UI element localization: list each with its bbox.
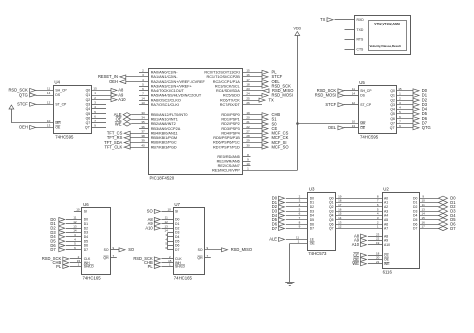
svg-text:RA3/AN3/C1IN+/VREF+: RA3/AN3/C1IN+/VREF+ bbox=[151, 84, 193, 88]
svg-text:SO: SO bbox=[104, 248, 109, 252]
svg-text:D1: D1 bbox=[175, 222, 179, 226]
svg-text:RC4/SDI/SDA: RC4/SDI/SDA bbox=[216, 89, 240, 93]
svg-text:QTG: QTG bbox=[19, 92, 28, 97]
svg-text:D5: D5 bbox=[413, 218, 417, 222]
svg-text:PIC18F4520: PIC18F4520 bbox=[150, 175, 175, 180]
svg-text:STCF: STCF bbox=[17, 102, 28, 107]
svg-text:TFT_CLK: TFT_CLK bbox=[105, 144, 123, 149]
svg-text:SH_CP: SH_CP bbox=[55, 89, 67, 93]
svg-text:Q2: Q2 bbox=[86, 98, 91, 102]
svg-text:SI: SI bbox=[84, 210, 87, 214]
svg-text:RD7/PSP7/P1D: RD7/PSP7/P1D bbox=[213, 145, 240, 149]
svg-text:U2: U2 bbox=[383, 187, 389, 192]
svg-text:74HC165: 74HC165 bbox=[83, 275, 102, 280]
svg-text:D5: D5 bbox=[310, 218, 314, 222]
svg-text:D1: D1 bbox=[84, 222, 88, 226]
svg-text:RD2/PSP2: RD2/PSP2 bbox=[221, 122, 239, 126]
svg-text:14: 14 bbox=[141, 96, 145, 100]
svg-text:D1: D1 bbox=[413, 201, 417, 205]
svg-text:DS: DS bbox=[55, 93, 60, 97]
svg-text:RC5/SDO: RC5/SDO bbox=[223, 94, 240, 98]
svg-text:RD1/PSP1: RD1/PSP1 bbox=[221, 118, 239, 122]
svg-text:D5: D5 bbox=[175, 239, 179, 243]
svg-text:10: 10 bbox=[76, 208, 80, 212]
svg-text:RC0/T1OSO/T13CKI: RC0/T1OSO/T13CKI bbox=[204, 71, 239, 75]
svg-text:RA1/AN1/C2IN-: RA1/AN1/C2IN- bbox=[151, 75, 179, 79]
svg-text:12: 12 bbox=[47, 101, 51, 105]
svg-text:RB2/AN8/INT2: RB2/AN8/INT2 bbox=[151, 122, 176, 126]
svg-text:D7: D7 bbox=[413, 227, 417, 231]
svg-text:Q1: Q1 bbox=[390, 94, 395, 98]
svg-text:27: 27 bbox=[246, 129, 250, 133]
svg-text:40: 40 bbox=[141, 143, 145, 147]
svg-text:Q5: Q5 bbox=[329, 218, 334, 222]
svg-text:RA2/AN2/C2IN+/VREF-/CVREF: RA2/AN2/C2IN+/VREF-/CVREF bbox=[151, 80, 206, 84]
svg-text:VDD: VDD bbox=[294, 27, 302, 31]
svg-text:SH/LD: SH/LD bbox=[84, 265, 95, 269]
svg-text:VT52,VT102,ANSI: VT52,VT102,ANSI bbox=[374, 22, 400, 26]
svg-text:RTS: RTS bbox=[357, 38, 364, 42]
svg-text:U4: U4 bbox=[54, 79, 60, 84]
svg-text:30: 30 bbox=[246, 143, 250, 147]
svg-text:SO: SO bbox=[147, 209, 153, 214]
svg-text:Q0: Q0 bbox=[86, 89, 91, 93]
svg-text:RSD_MISO: RSD_MISO bbox=[231, 247, 252, 252]
svg-text:25: 25 bbox=[246, 96, 250, 100]
svg-text:Q3: Q3 bbox=[390, 103, 395, 107]
svg-text:WE: WE bbox=[115, 121, 122, 126]
svg-text:D7: D7 bbox=[175, 248, 179, 252]
svg-text:RA7/OSC1/CLKI: RA7/OSC1/CLKI bbox=[151, 103, 179, 107]
svg-text:RB5/KBI1/PGM: RB5/KBI1/PGM bbox=[151, 136, 177, 140]
svg-text:RB3/AN9/CCP2A: RB3/AN9/CCP2A bbox=[151, 127, 181, 131]
svg-text:OEH: OEH bbox=[19, 125, 28, 130]
svg-text:15: 15 bbox=[246, 69, 250, 73]
svg-text:RC2/CCP1/P1A: RC2/CCP1/P1A bbox=[213, 80, 240, 84]
svg-text:DS: DS bbox=[360, 94, 365, 98]
svg-text:RC3/SCK/SCL: RC3/SCK/SCL bbox=[215, 84, 240, 88]
svg-text:RB4/KBI0/AN11: RB4/KBI0/AN11 bbox=[151, 131, 178, 135]
svg-text:D7: D7 bbox=[310, 227, 314, 231]
svg-text:A5: A5 bbox=[384, 218, 388, 222]
svg-text:RE3/MCLR/VPP: RE3/MCLR/VPP bbox=[212, 169, 240, 173]
svg-text:U5: U5 bbox=[359, 80, 365, 85]
svg-text:18: 18 bbox=[246, 82, 250, 86]
svg-text:Q1: Q1 bbox=[86, 93, 91, 97]
svg-text:RD0/PSP0: RD0/PSP0 bbox=[221, 113, 239, 117]
svg-text:Q7': Q7' bbox=[85, 126, 91, 130]
svg-text:U6: U6 bbox=[83, 202, 89, 207]
svg-text:OEH: OEH bbox=[109, 79, 118, 84]
svg-text:D5: D5 bbox=[84, 239, 88, 243]
svg-text:10: 10 bbox=[352, 119, 356, 123]
svg-text:Q6: Q6 bbox=[86, 116, 91, 120]
svg-text:OEL: OEL bbox=[328, 125, 337, 130]
svg-text:STCF: STCF bbox=[325, 102, 336, 107]
svg-text:Q5: Q5 bbox=[86, 112, 91, 116]
svg-text:SO: SO bbox=[198, 248, 203, 252]
svg-text:PL: PL bbox=[148, 264, 154, 269]
svg-text:RD3/PSP3: RD3/PSP3 bbox=[221, 127, 239, 131]
svg-text:A1: A1 bbox=[384, 201, 388, 205]
svg-text:TX: TX bbox=[269, 97, 275, 102]
svg-text:MR: MR bbox=[55, 121, 61, 125]
svg-text:Q3: Q3 bbox=[86, 103, 91, 107]
svg-text:QTG: QTG bbox=[422, 125, 431, 130]
svg-text:74HC595: 74HC595 bbox=[55, 134, 74, 139]
svg-text:D7: D7 bbox=[50, 247, 56, 252]
svg-text:TX: TX bbox=[320, 17, 326, 22]
svg-text:QH: QH bbox=[103, 256, 109, 260]
svg-text:SI: SI bbox=[175, 210, 178, 214]
svg-text:74HC165: 74HC165 bbox=[174, 275, 193, 280]
svg-text:ST_CP: ST_CP bbox=[55, 103, 67, 107]
svg-text:RSD_MOSI: RSD_MOSI bbox=[315, 93, 336, 98]
svg-text:15: 15 bbox=[93, 87, 97, 91]
svg-text:RE1/WR/AN6: RE1/WR/AN6 bbox=[217, 159, 240, 163]
svg-text:A10: A10 bbox=[352, 242, 360, 247]
svg-text:TXD: TXD bbox=[357, 28, 364, 32]
svg-text:RSD_MOSI: RSD_MOSI bbox=[272, 93, 293, 98]
svg-text:OE: OE bbox=[55, 126, 61, 130]
svg-text:34: 34 bbox=[141, 116, 145, 120]
svg-text:RA6/OSC2/CLKO: RA6/OSC2/CLKO bbox=[151, 98, 181, 102]
svg-text:D7: D7 bbox=[450, 226, 456, 231]
svg-text:RE0/RD/AN5: RE0/RD/AN5 bbox=[217, 155, 239, 159]
svg-text:MR: MR bbox=[360, 121, 366, 125]
svg-text:14: 14 bbox=[352, 92, 356, 96]
svg-text:RA5/AN4/SS/HLVDIN/C2OUT: RA5/AN4/SS/HLVDIN/C2OUT bbox=[151, 94, 202, 98]
svg-text:MCF_SO: MCF_SO bbox=[272, 144, 289, 149]
svg-text:A7: A7 bbox=[384, 227, 388, 231]
svg-text:37: 37 bbox=[141, 129, 145, 133]
svg-text:OE: OE bbox=[360, 126, 366, 130]
svg-text:SO: SO bbox=[128, 247, 134, 252]
svg-text:Q7: Q7 bbox=[86, 121, 91, 125]
svg-text:74HC595: 74HC595 bbox=[360, 135, 379, 140]
svg-text:RC7/RX/DT: RC7/RX/DT bbox=[220, 103, 241, 107]
svg-text:SH/LD: SH/LD bbox=[175, 265, 186, 269]
svg-text:D7: D7 bbox=[272, 226, 278, 231]
svg-text:Q2: Q2 bbox=[390, 98, 395, 102]
svg-text:RXD: RXD bbox=[357, 18, 365, 22]
svg-text:RD5/PSP5/P1B: RD5/PSP5/P1B bbox=[213, 136, 240, 140]
svg-text:WE: WE bbox=[352, 261, 359, 266]
svg-text:24: 24 bbox=[246, 92, 250, 96]
svg-text:6116: 6116 bbox=[383, 269, 393, 274]
svg-text:RA0/AN0/C1IN-: RA0/AN0/C1IN- bbox=[151, 71, 179, 75]
svg-text:Q4: Q4 bbox=[86, 107, 91, 111]
svg-text:Q1: Q1 bbox=[329, 201, 334, 205]
svg-text:RB7/KBI3/PGD: RB7/KBI3/PGD bbox=[151, 145, 177, 149]
svg-text:Q7: Q7 bbox=[329, 227, 334, 231]
svg-text:Q0: Q0 bbox=[390, 89, 395, 93]
svg-text:SH_CP: SH_CP bbox=[360, 89, 372, 93]
svg-text:D7: D7 bbox=[84, 248, 88, 252]
svg-text:U3: U3 bbox=[309, 187, 315, 192]
svg-text:RD4/PSP4: RD4/PSP4 bbox=[221, 131, 239, 135]
svg-text:A10: A10 bbox=[384, 243, 390, 247]
svg-text:RE2/CS/AN7: RE2/CS/AN7 bbox=[218, 164, 240, 168]
svg-text:RD6/PSP6/P1C: RD6/PSP6/P1C bbox=[213, 141, 240, 145]
svg-text:Q7: Q7 bbox=[390, 121, 395, 125]
svg-text:RA4/T0CKI/C1OUT: RA4/T0CKI/C1OUT bbox=[151, 89, 185, 93]
svg-text:PL: PL bbox=[56, 264, 62, 269]
svg-text:14: 14 bbox=[47, 91, 51, 95]
svg-text:D1: D1 bbox=[310, 201, 314, 205]
svg-text:U7: U7 bbox=[174, 202, 180, 207]
svg-text:RB0/AN12/FLT0/INT0: RB0/AN12/FLT0/INT0 bbox=[151, 113, 188, 117]
svg-text:11: 11 bbox=[47, 87, 50, 91]
svg-text:Velocity,Vitesse,Result: Velocity,Vitesse,Result bbox=[370, 44, 401, 48]
svg-text:RB6/KBI2/PGC: RB6/KBI2/PGC bbox=[151, 141, 177, 145]
svg-text:CTS: CTS bbox=[357, 48, 365, 52]
svg-text:74HC573: 74HC573 bbox=[308, 251, 327, 256]
svg-text:ALE: ALE bbox=[269, 237, 277, 242]
svg-text:13: 13 bbox=[47, 124, 51, 128]
svg-text:Q6: Q6 bbox=[390, 117, 395, 121]
svg-text:RB1/AN10/INT1: RB1/AN10/INT1 bbox=[151, 118, 178, 122]
svg-text:RC1/T1OSI/CCP2B: RC1/T1OSI/CCP2B bbox=[206, 75, 240, 79]
svg-text:Q7': Q7' bbox=[390, 126, 396, 130]
svg-text:10: 10 bbox=[168, 208, 172, 212]
svg-text:A10: A10 bbox=[145, 226, 153, 231]
svg-text:Q4: Q4 bbox=[390, 108, 395, 112]
svg-text:ST_CP: ST_CP bbox=[360, 103, 372, 107]
svg-text:WE: WE bbox=[384, 262, 390, 266]
svg-text:Q5: Q5 bbox=[390, 112, 395, 116]
svg-text:QH: QH bbox=[197, 256, 203, 260]
svg-text:RC6/TX/CK: RC6/TX/CK bbox=[220, 98, 240, 102]
svg-text:20: 20 bbox=[246, 116, 250, 120]
svg-text:OE: OE bbox=[310, 242, 316, 246]
svg-text:A10: A10 bbox=[118, 97, 126, 102]
